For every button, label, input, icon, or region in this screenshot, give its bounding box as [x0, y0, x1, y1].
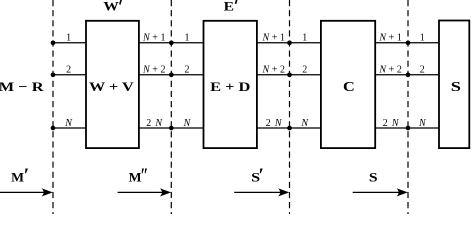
- svg-text:N+2: N+2: [261, 65, 285, 76]
- wire row 3 segment 2: [139, 127, 204, 129]
- node row 1 on cut line 2: [169, 40, 174, 45]
- signal label S': [251, 166, 264, 187]
- wire row 1 segment 3: [257, 42, 321, 44]
- svg-text:2: 2: [302, 65, 307, 76]
- node row 3 on cut line 2: [169, 126, 174, 131]
- svg-text:2N: 2N: [146, 118, 163, 129]
- svg-text:2N: 2N: [383, 118, 400, 129]
- svg-text:N: N: [64, 118, 73, 129]
- node row 2 on cut line 3: [287, 72, 292, 77]
- svg-text:N+1: N+1: [261, 33, 285, 44]
- wire row 3 segment 4: [375, 127, 439, 129]
- svg-text:M: M: [11, 170, 24, 185]
- block W+V box: [86, 21, 139, 148]
- svg-text:S: S: [369, 170, 378, 185]
- node row 3 on cut line 3: [287, 126, 292, 131]
- label E' above block E+D: [224, 0, 237, 14]
- svg-text:E: E: [224, 0, 234, 14]
- wire row 3 segment 1: [53, 127, 86, 129]
- svg-text:″: ″: [140, 166, 148, 187]
- svg-text:M − R: M − R: [0, 79, 44, 94]
- signal label M'': [129, 166, 149, 187]
- node row 1 on cut line 3: [287, 40, 292, 45]
- arrow 4 bottom: [353, 188, 408, 196]
- svg-text:N+2: N+2: [378, 65, 402, 76]
- wire row 2 segment 1: [53, 74, 86, 76]
- label W' above block W+V: [103, 0, 121, 14]
- svg-text:N+1: N+1: [142, 33, 166, 44]
- block S box: [439, 21, 469, 149]
- svg-text:1: 1: [302, 33, 307, 44]
- wire row 2 segment 2: [139, 74, 204, 76]
- svg-text:S: S: [451, 79, 462, 94]
- dashed cut line 3: [289, 0, 291, 214]
- svg-text:2N: 2N: [266, 118, 283, 129]
- svg-text:N: N: [418, 118, 427, 129]
- svg-text:C: C: [343, 79, 355, 94]
- arrow 3 bottom: [234, 188, 289, 196]
- svg-text:′: ′: [259, 166, 264, 187]
- svg-text:2: 2: [420, 65, 425, 76]
- svg-text:2: 2: [66, 65, 71, 76]
- svg-text:N: N: [300, 118, 309, 129]
- dashed cut line 1: [52, 0, 54, 214]
- dashed cut line 4: [407, 0, 409, 214]
- wire row 1 segment 4: [375, 42, 439, 44]
- node row 1 on cut line 1: [51, 40, 56, 45]
- block E+D box: [204, 21, 257, 148]
- svg-text:N+2: N+2: [142, 65, 166, 76]
- node row 2 on cut line 1: [51, 72, 56, 77]
- node row 1 on cut line 4: [406, 40, 411, 45]
- dashed cut line 2: [170, 0, 172, 214]
- svg-text:1: 1: [185, 33, 190, 44]
- svg-text:W: W: [103, 0, 118, 14]
- wire row 1 segment 2: [139, 42, 204, 44]
- svg-text:W + V: W + V: [89, 79, 134, 94]
- svg-text:1: 1: [420, 33, 425, 44]
- node row 3 on cut line 1: [51, 126, 56, 131]
- node row 2 on cut line 2: [169, 72, 174, 77]
- svg-text:N: N: [183, 118, 192, 129]
- wire row 1 segment 1: [53, 42, 86, 44]
- svg-text:N+1: N+1: [378, 33, 402, 44]
- node row 2 on cut line 4: [406, 72, 411, 77]
- arrow 2 bottom: [118, 188, 172, 196]
- svg-text:2: 2: [185, 65, 190, 76]
- node row 3 on cut line 4: [406, 126, 411, 131]
- svg-text:1: 1: [66, 33, 71, 44]
- signal label M': [11, 166, 29, 187]
- wire row 2 segment 4: [375, 74, 439, 76]
- svg-text:E + D: E + D: [210, 79, 250, 94]
- wire row 2 segment 3: [257, 74, 321, 76]
- wire row 3 segment 3: [257, 127, 321, 129]
- svg-text:′: ′: [24, 166, 29, 187]
- block C box: [321, 21, 375, 148]
- arrow 1 bottom: [0, 188, 53, 196]
